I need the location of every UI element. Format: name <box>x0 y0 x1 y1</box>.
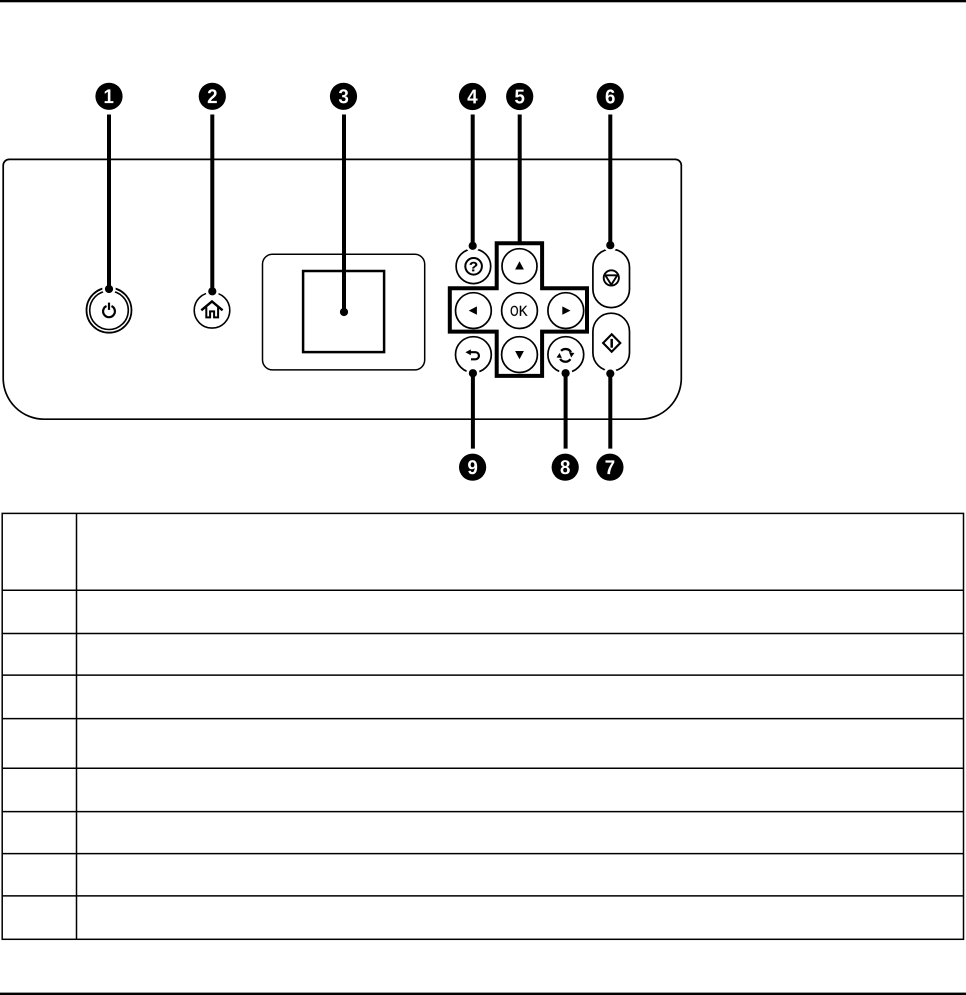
right arrow button <box>548 293 584 329</box>
home button B2 <box>194 293 230 329</box>
power button B1 inner ring <box>90 291 129 330</box>
callout line 2 <box>210 115 214 292</box>
reference table <box>2 513 963 939</box>
callout 1 <box>95 83 122 110</box>
control panel outline <box>3 159 681 419</box>
left arrow button <box>456 293 492 329</box>
callout line 8 <box>564 373 568 448</box>
refresh button B8 <box>548 337 584 373</box>
callout 3 <box>330 83 357 110</box>
callout 5 <box>506 83 533 110</box>
d-pad cross outline B5 <box>450 243 587 376</box>
down arrow button <box>502 337 538 373</box>
back icon <box>470 352 479 359</box>
help icon <box>465 258 482 275</box>
callout 4 <box>459 83 486 110</box>
power icon <box>103 303 115 318</box>
refresh icon <box>560 349 571 362</box>
callout 6 <box>597 83 624 110</box>
callout lines <box>109 115 610 449</box>
callout line 6 <box>608 115 612 246</box>
footer rule <box>0 993 966 995</box>
callout line 3 <box>342 115 346 313</box>
callout 7 <box>596 454 623 481</box>
up arrow button <box>502 249 537 284</box>
back button B9 <box>456 337 492 373</box>
LCD screen inner <box>303 271 384 352</box>
start icon diamond <box>603 334 620 351</box>
LCD screen outer <box>263 254 425 370</box>
white halos under callout dots <box>102 239 617 381</box>
stop icon <box>604 270 619 285</box>
callout line 7 <box>608 374 612 449</box>
power button B1 outer ring <box>87 288 132 333</box>
home icon <box>201 301 222 317</box>
callout line 1 <box>107 115 111 290</box>
callout dots <box>105 241 615 378</box>
help button B4 <box>456 249 491 284</box>
callout 9 <box>459 454 486 481</box>
start button B7 <box>593 313 630 371</box>
callout line 9 <box>471 373 475 448</box>
callout line 5 <box>518 115 522 244</box>
callout line 4 <box>471 115 475 247</box>
OK button <box>502 293 538 329</box>
callout 8 <box>552 454 579 481</box>
header rule <box>0 0 966 2</box>
stop button B6 <box>593 249 630 308</box>
callout 2 <box>199 83 226 110</box>
